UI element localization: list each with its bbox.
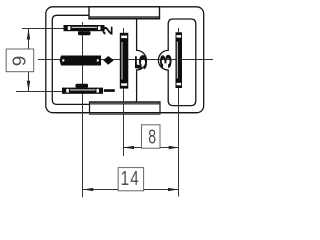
bottom mounting tab [90,102,161,113]
svg-text:14: 14 [121,167,140,189]
svg-text:5: 5 [131,54,151,70]
svg-text:3: 3 [156,54,175,69]
pin 1 slot [62,88,103,94]
dimension 8 line [123,147,179,149]
relay outer case outline [46,7,204,113]
node pin2 axis line [22,28,104,30]
wire vertical centerline pin 5 [123,28,125,156]
pin 30 end diamond [103,56,114,65]
svg-text:8: 8 [148,125,156,148]
dimension 9 line [28,29,30,91]
wire pin3 extension overlay [178,88,180,197]
bottom tab protruding lower edge [90,113,161,115]
wire 14-dim left extension overlay [82,95,84,198]
pin 3 slot [176,32,183,88]
pin 2 tab [78,31,91,35]
dimension 8 label box [142,125,161,148]
pin 5 slot [120,33,129,89]
dimension 9 arrows [27,29,30,40]
dimension 14 arrows [83,188,94,191]
left cavity outline with right-wall bump [52,15,146,104]
dimension 8 arrows [123,146,134,149]
relay outer bottom edge redraw [56,112,197,114]
top mounting tab [89,7,160,19]
wire vertical centerline pin 3 [178,28,180,197]
right pin-3 chamber outline with left-wall bump [158,19,195,106]
dimension 9 label box [6,49,34,72]
pin 30 wide slot [60,56,101,66]
pin 2 slot [64,25,105,31]
svg-text:9: 9 [10,56,31,67]
wire 8-dim left extension overlay [123,90,125,156]
dimension 14 label box [118,168,143,191]
dimension 14 line [83,189,179,191]
svg-text:2: 2 [101,26,117,36]
wire vertical centerline left pins [82,22,84,198]
centerline horizontal axis [38,59,213,61]
node pin1 axis line [16,91,101,93]
pin 1 tab [76,84,89,88]
pin label 1 [104,89,115,92]
